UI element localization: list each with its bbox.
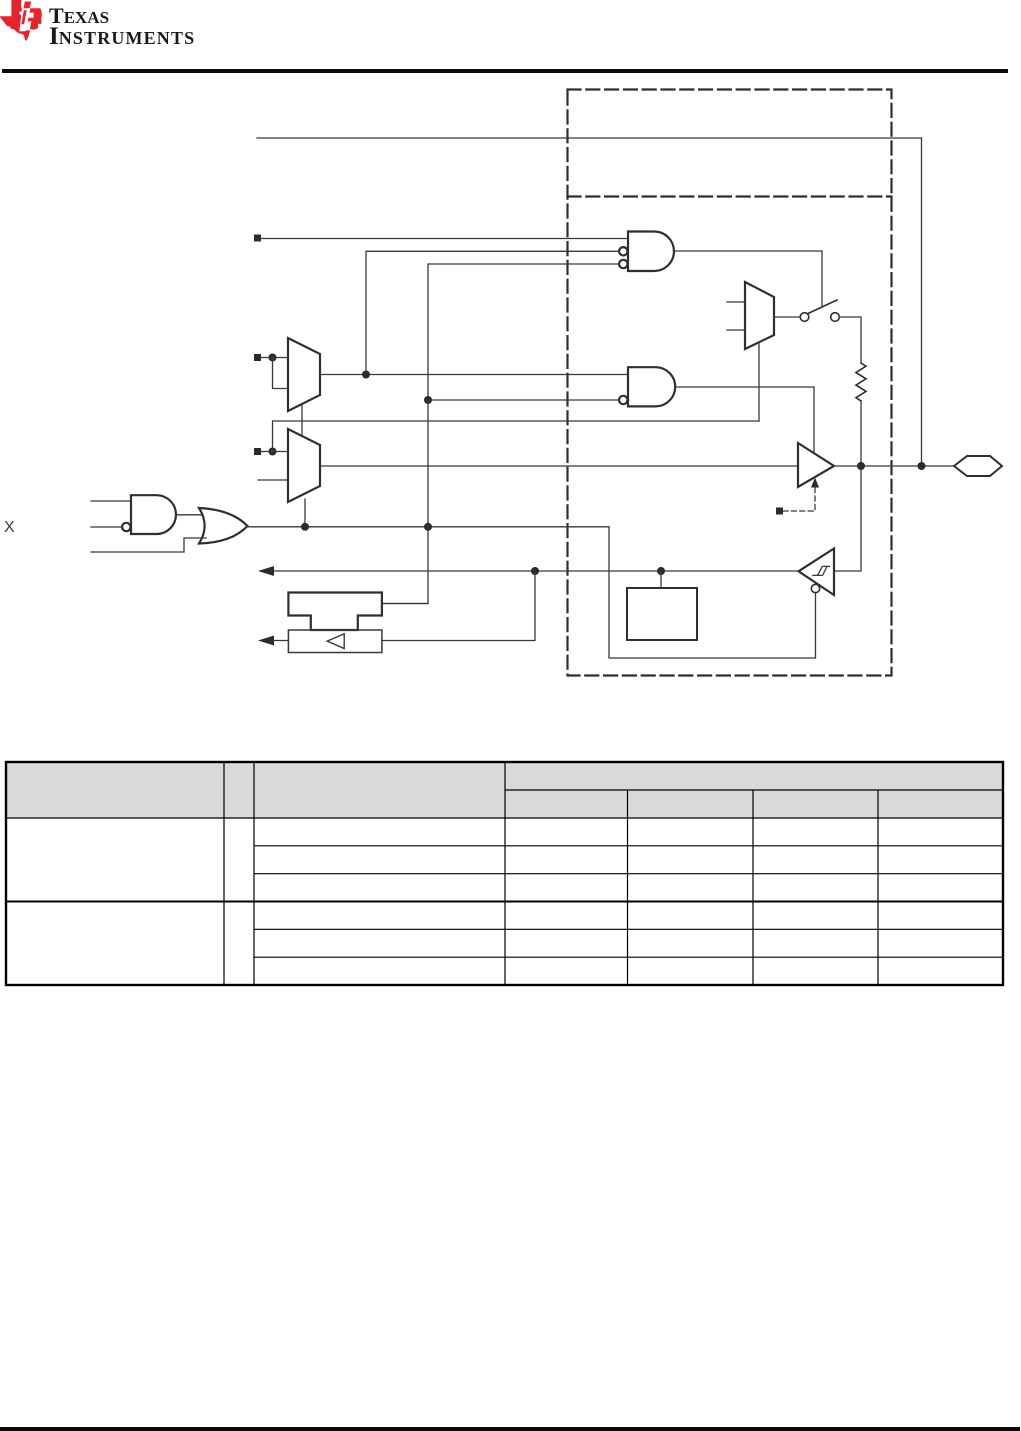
node T3 junction xyxy=(269,448,277,456)
wire arrow to U10 xyxy=(272,640,288,642)
wire U5 select to node D xyxy=(304,499,306,527)
square terminal T3 xyxy=(254,448,261,455)
and gate U1 xyxy=(619,232,674,272)
wire U3 select link xyxy=(301,404,303,436)
wire U7 input b xyxy=(91,538,206,552)
latch block U10 upper xyxy=(288,593,382,631)
node pad junction 2 xyxy=(918,462,926,470)
node B junction xyxy=(362,371,370,379)
top rule xyxy=(2,69,1008,73)
and gate U4 xyxy=(619,367,675,406)
node F junction xyxy=(657,567,665,575)
mux U2 pullup-select xyxy=(745,282,774,349)
wire pad to schmitt input xyxy=(834,466,861,571)
node pad junction 1 xyxy=(857,462,865,470)
tri-state buffer U8 xyxy=(798,443,834,487)
module box U11 xyxy=(627,588,697,640)
node X label xyxy=(4,519,15,537)
node T2 junction xyxy=(269,354,277,362)
wire U5 output to buffer U8 xyxy=(320,465,798,467)
switch SW1 xyxy=(800,300,839,321)
wire node C vertical xyxy=(383,400,428,604)
stub U5 input b xyxy=(258,479,288,481)
wire pad net xyxy=(834,465,954,467)
pad pin hexagon xyxy=(954,456,1002,476)
wire T3 to mux U5 xyxy=(261,451,288,453)
stub U6 input a xyxy=(91,500,131,502)
mux U5 output-select xyxy=(288,429,320,502)
square terminal T2 xyxy=(254,354,261,361)
node E junction xyxy=(531,567,539,575)
wire U6 out to U7 xyxy=(176,514,207,516)
arrowhead input signal xyxy=(258,566,274,576)
wire T2 branch xyxy=(273,358,289,389)
wire net top (interrupt edge select) xyxy=(257,138,922,466)
and gate U6 xyxy=(122,495,176,534)
bottom rule xyxy=(0,1427,1020,1431)
hysteresis symbol xyxy=(812,566,830,575)
wire T3 up to select net xyxy=(273,421,760,452)
U9 enable bubble xyxy=(811,584,819,592)
wire node F to box U11 xyxy=(660,571,662,588)
dashed divider line xyxy=(568,195,892,197)
buffer glyph in U10 xyxy=(327,634,344,649)
wire U10 to node C xyxy=(382,603,428,605)
node D junction 2 xyxy=(424,523,432,531)
dashed enable wire xyxy=(783,487,815,511)
wire U9 output net xyxy=(274,570,799,572)
latch block U10 lower xyxy=(288,630,382,653)
wire U10 to node E xyxy=(382,571,535,641)
arrowhead U10 output xyxy=(258,636,274,646)
node D junction 1 xyxy=(301,523,309,531)
wire node B to U1 input 2 xyxy=(366,251,619,374)
wire U3 output to U4 xyxy=(320,374,628,376)
TEXAS INSTRUMENTS wordmark xyxy=(48,0,50,1)
stub U2 input a xyxy=(727,301,745,303)
wire U2 select xyxy=(758,342,760,421)
TI logo red Texas bug xyxy=(0,0,44,44)
resistor R1 xyxy=(856,363,866,401)
or gate U7 xyxy=(199,508,248,544)
square terminal T1 xyxy=(254,235,261,242)
wire switch to resistor xyxy=(840,317,862,363)
wire U2 out to switch xyxy=(774,316,800,318)
wire U1 output to switch blade xyxy=(675,251,823,307)
wire T1 to U1 xyxy=(261,238,628,240)
node C junction xyxy=(424,396,432,404)
wire U4 output to tristate enable xyxy=(676,387,815,453)
wire resistor to pad node xyxy=(860,401,862,466)
wire node C to U4 input 2 xyxy=(428,399,619,401)
enable arrowhead xyxy=(811,478,819,488)
wire T2 to mux U3 inputs xyxy=(261,357,288,359)
dashed module boundary box xyxy=(568,90,892,676)
mux U3 direction-select xyxy=(288,338,320,411)
stub U2 input b xyxy=(727,329,745,331)
schmitt trigger U9 xyxy=(799,549,835,596)
dashed enable terminal T4 xyxy=(776,508,783,515)
wire node D net xyxy=(248,527,816,658)
wire node C to U1 input 3 xyxy=(428,264,619,400)
stub U6 input b xyxy=(91,526,122,528)
